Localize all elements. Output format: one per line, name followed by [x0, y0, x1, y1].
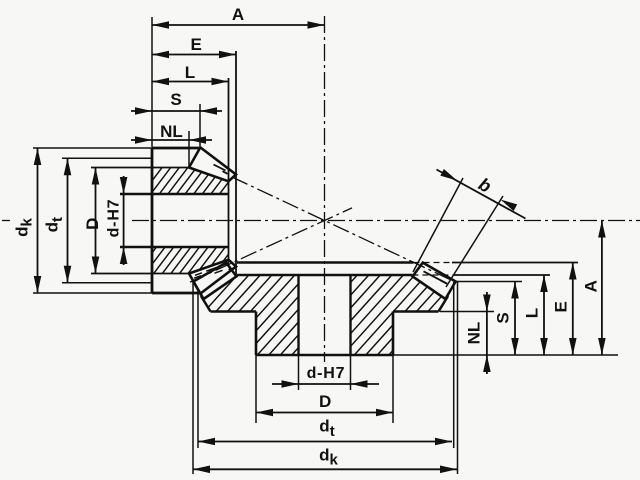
wheel right tooth flank [424, 271, 448, 283]
dimension E top [152, 54, 236, 56]
wheel rim top line [237, 274, 412, 277]
dimension S right [514, 282, 516, 356]
pinion upper tooth [189, 147, 236, 181]
extension line bore right [350, 355, 352, 390]
pinion upper shoulder [91, 167, 189, 169]
svg-text:d-H7: d-H7 [106, 199, 123, 238]
extension line bottom face wheel [393, 354, 618, 356]
svg-text:A: A [232, 5, 244, 24]
wheel right rim outer edge [439, 296, 449, 312]
wheel right step [393, 310, 439, 312]
dimension S top (outside arrows) [131, 110, 222, 112]
dimension L top [152, 81, 229, 83]
wheel bottom face [256, 354, 393, 357]
svg-text:S: S [494, 312, 513, 323]
dimension dk wheel [193, 468, 457, 470]
wheel axis centerline [324, 16, 326, 362]
svg-text:E: E [552, 301, 571, 312]
dimension dt pinion [67, 158, 69, 282]
extension line b inner [446, 196, 503, 287]
pinion back face [151, 148, 154, 293]
dimension dk pinion [37, 148, 39, 293]
dimension dt wheel [198, 441, 452, 443]
dimension d-H7 pinion (outside arrows) [123, 176, 125, 265]
svg-text:d-H7: d-H7 [307, 365, 346, 382]
pinion front face line L [228, 78, 230, 263]
svg-text:A: A [582, 280, 601, 292]
dimension D wheel [256, 412, 393, 414]
pinion axis centerline [2, 220, 10, 222]
svg-text:NL: NL [465, 322, 484, 345]
extension lines dt pinion [62, 157, 152, 159]
extension line D wheel right [392, 355, 394, 423]
dimension NL right (outside arrows) [486, 292, 488, 374]
wheel left step [211, 310, 257, 312]
dimension d-H7 wheel (outside arrows) [272, 383, 379, 385]
pitch cone line lower-left to upper-right [190, 208, 352, 282]
extension line dt wheel right [453, 282, 455, 448]
extension line S wheel [456, 281, 522, 283]
pitch cone line upper-left to lower-right [232, 177, 460, 284]
pinion lower shoulder [91, 273, 189, 275]
pinion bore bottom [120, 246, 229, 248]
pinion bore top [120, 193, 229, 195]
wheel right tooth [413, 263, 456, 299]
svg-text:D: D [83, 218, 102, 230]
extension lines dk pinion [33, 147, 152, 149]
svg-text:L: L [523, 308, 542, 318]
extension line dk wheel left [192, 282, 194, 474]
extension line S [199, 104, 201, 146]
extension line bore left [298, 355, 300, 390]
svg-text:NL: NL [160, 122, 183, 141]
wheel left tooth [193, 263, 236, 299]
dimension L right [543, 275, 545, 355]
extension line D wheel left [255, 355, 257, 423]
svg-text:D: D [319, 392, 331, 411]
dimension D pinion [95, 168, 97, 274]
pinion bottom tip edge [152, 292, 200, 295]
extension line dt wheel left [197, 290, 199, 448]
extension line NL [188, 131, 190, 167]
pinion upper tooth flank [214, 165, 226, 171]
extension line pinion back face [151, 17, 153, 147]
wheel left tooth hidden tip edge (dashed) [195, 273, 202, 276]
wheel left rim outer edge [201, 296, 211, 312]
pinion front face line E [235, 51, 237, 275]
extension line b outer [413, 178, 463, 272]
extension line dk wheel right [457, 282, 459, 474]
svg-text:S: S [170, 90, 181, 109]
svg-text:E: E [191, 35, 202, 54]
dimension A top [152, 24, 325, 26]
dimension E right [572, 263, 574, 356]
svg-text:L: L [185, 63, 195, 82]
pinion top tip edge [152, 147, 200, 150]
wheel tip-face line [237, 261, 414, 264]
mesh hidden edges [194, 276, 201, 279]
dimension A right [601, 221, 603, 356]
wheel bore right [349, 275, 351, 355]
dimension b [437, 170, 526, 219]
extension line NL wheel [440, 311, 494, 313]
dimension NL top (outside arrows) [131, 139, 212, 141]
pinion lower tooth hidden root edge (dashed) [206, 268, 216, 272]
wheel bore left [297, 275, 299, 355]
pinion lower tooth [189, 260, 236, 294]
